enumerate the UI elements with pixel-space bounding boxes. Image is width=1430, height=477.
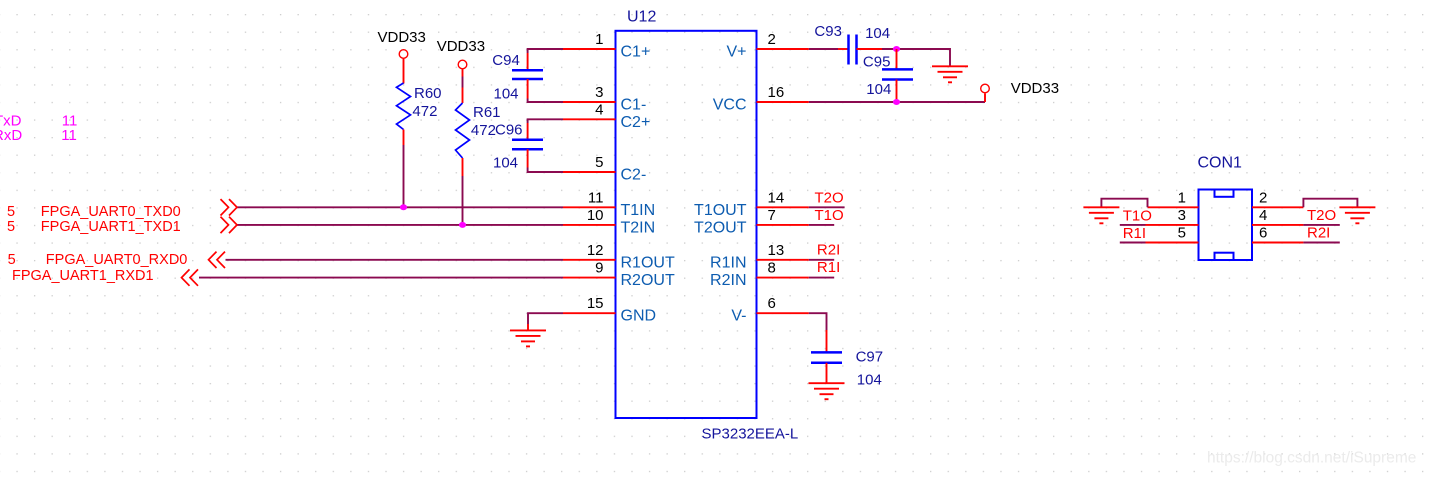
svg-text:1: 1: [595, 31, 603, 48]
svg-text:6: 6: [1259, 225, 1267, 242]
port label FPGA_UART0_RXD0: [8, 252, 188, 268]
svg-text:13: 13: [768, 242, 785, 259]
svg-text:R1I: R1I: [1123, 225, 1146, 242]
svg-text:C2+: C2+: [621, 114, 651, 131]
svg-text:T2IN: T2IN: [621, 219, 656, 236]
resistor R60 top pin: [403, 59, 405, 84]
svg-text:FPGA_UART1_TXD1: FPGA_UART1_TXD1: [41, 219, 181, 235]
pin 9 R2OUT: [563, 260, 675, 290]
net label R1I wire (CON1 pin 5): [1120, 242, 1146, 244]
wire CON1 pin 2 to ground (step): [1303, 199, 1357, 208]
svg-text:1: 1: [1178, 189, 1186, 206]
op-amp U12 body rectangle: [616, 31, 757, 418]
pin 13 R1IN: [710, 242, 809, 271]
ground symbol (C97): [809, 383, 845, 399]
wire R1OUT bus: [226, 259, 564, 261]
pin 14 T1OUT: [694, 189, 809, 219]
svg-text:14: 14: [768, 189, 785, 206]
svg-text:C94: C94: [492, 52, 520, 69]
svg-text:5: 5: [1178, 225, 1186, 242]
pin 4 C2+: [563, 101, 650, 131]
pin 10 T2IN: [563, 207, 655, 237]
resistor R60: [397, 83, 411, 130]
svg-text:T1IN: T1IN: [621, 202, 656, 219]
net label T2O wire (CON1 pin 4): [1303, 224, 1339, 226]
pin 3 C1-: [563, 84, 646, 114]
CON1 pin 4: [1252, 207, 1303, 225]
pin 5 C2-: [563, 154, 646, 184]
ground symbol (CON1 right): [1339, 207, 1375, 223]
ground symbol (CON1 left): [1083, 207, 1119, 223]
wire C93 to ground corner: [882, 49, 950, 66]
resistor R60 bottom pin: [403, 130, 405, 146]
wire C96 bottom to pin 5: [528, 168, 563, 173]
svg-text:FPGA_UART1_RXD1: FPGA_UART1_RXD1: [12, 268, 154, 284]
svg-text:T2O: T2O: [815, 190, 844, 207]
svg-text:VDD33: VDD33: [437, 38, 485, 55]
svg-text:2: 2: [768, 31, 776, 48]
svg-text:472: 472: [471, 122, 496, 139]
svg-text:V+: V+: [726, 44, 746, 61]
wire T2IN bus: [237, 224, 563, 226]
svg-text:T1O: T1O: [1123, 207, 1152, 224]
svg-text:2: 2: [1259, 189, 1267, 206]
svg-text:CON1: CON1: [1198, 155, 1243, 172]
power port VDD33 (VCC) stem: [984, 94, 986, 103]
svg-text:5: 5: [7, 219, 15, 235]
capacitor C96: [512, 140, 543, 149]
resistor R61 bottom pin: [462, 158, 464, 176]
wire R61 to T2IN: [462, 176, 464, 225]
power port VDD33 (R61): [437, 38, 485, 69]
wire CON1 pin 1 to ground (step): [1101, 199, 1147, 208]
capacitor C94: [512, 70, 543, 79]
svg-text:R2OUT: R2OUT: [621, 272, 675, 289]
svg-text:VDD33: VDD33: [1011, 80, 1059, 97]
capacitor C94 bottom pin: [527, 79, 529, 99]
svg-text:T1O: T1O: [815, 207, 844, 224]
svg-text:C97: C97: [856, 349, 884, 366]
capacitor C93: [849, 35, 857, 65]
pin 11 T1IN: [563, 189, 655, 219]
svg-text:U12: U12: [627, 8, 656, 25]
svg-text:R1OUT: R1OUT: [621, 254, 675, 271]
capacitor C96 bottom pin: [527, 149, 529, 167]
net label T1O (pin 7): [809, 207, 844, 225]
capacitor C97 bottom pin: [826, 363, 828, 383]
svg-text:104: 104: [857, 371, 882, 388]
resistor R61 top pin: [462, 88, 464, 104]
svg-text:R2IN: R2IN: [710, 272, 746, 289]
net label R2I wire (CON1 pin 6): [1303, 242, 1339, 244]
port arrow FPGA_UART1_TXD1: [221, 217, 238, 233]
svg-text:C93: C93: [814, 23, 842, 40]
pin 1 C1+: [563, 31, 650, 61]
svg-text:C95: C95: [863, 54, 891, 71]
net label T1O wire (CON1 pin 3): [1120, 224, 1146, 226]
pin 12 R1OUT: [563, 242, 675, 271]
svg-text:T2O: T2O: [1307, 207, 1336, 224]
svg-text:104: 104: [866, 81, 891, 98]
pin 16 VCC: [713, 84, 809, 114]
junction C93/C95: [893, 46, 900, 52]
CON1 pin 2: [1252, 189, 1303, 207]
svg-text:V-: V-: [731, 308, 746, 325]
svg-text:FPGA_UART0_RXD0: FPGA_UART0_RXD0: [46, 252, 188, 268]
port label FPGA_UART0_TXD0: [7, 204, 181, 220]
svg-text:R2I: R2I: [1307, 225, 1330, 242]
pin 6 V-: [731, 295, 808, 325]
svg-text:104: 104: [494, 86, 519, 103]
svg-text:104: 104: [493, 155, 518, 172]
port arrow FPGA_UART0_TXD0: [221, 199, 238, 215]
wire VDD33 to R61: [462, 77, 464, 88]
net label R1I (pin 8): [809, 259, 840, 278]
capacitor C95: [882, 69, 913, 79]
svg-text:C96: C96: [495, 122, 523, 139]
ground symbol (pin 15): [510, 324, 546, 346]
CON1 pin 1: [1148, 189, 1199, 207]
junction R60/T1IN: [400, 204, 407, 210]
resistor R61: [456, 103, 470, 158]
svg-text:6: 6: [768, 295, 776, 312]
wire pin 2 to C93: [809, 48, 838, 50]
CON1 top notch: [1215, 190, 1234, 197]
svg-text:T2OUT: T2OUT: [694, 219, 747, 236]
svg-text:3: 3: [595, 84, 603, 101]
wire R2OUT bus: [199, 277, 563, 279]
svg-text:R61: R61: [473, 104, 501, 121]
svg-text:4: 4: [1259, 207, 1267, 224]
svg-text:C1-: C1-: [621, 97, 647, 114]
CON1 pin 5: [1146, 225, 1199, 243]
svg-text:11: 11: [61, 127, 77, 144]
junction C95/VCC: [893, 99, 900, 105]
svg-text:RxD: RxD: [0, 127, 22, 144]
port arrow FPGA_UART1_RXD1: [182, 269, 199, 285]
svg-text:11: 11: [588, 189, 604, 206]
net label R2I (pin 13): [809, 242, 840, 260]
CON1 pin 3: [1146, 207, 1199, 225]
pin 2 V+: [726, 31, 808, 61]
pin 7 T2OUT: [694, 207, 809, 237]
power port VDD33 (R60): [378, 29, 426, 58]
wire C94 top to pin 1: [528, 49, 563, 53]
svg-text:R1I: R1I: [817, 259, 840, 276]
svg-text:T1OUT: T1OUT: [694, 202, 747, 219]
wire GND to pin 15: [528, 313, 563, 324]
port arrow FPGA_UART0_RXD0: [209, 252, 226, 268]
capacitor C97: [811, 352, 842, 362]
svg-text:8: 8: [768, 260, 776, 277]
svg-text:FPGA_UART0_TXD0: FPGA_UART0_TXD0: [41, 204, 181, 220]
svg-text:4: 4: [595, 101, 603, 118]
svg-text:SP3232EEA-L: SP3232EEA-L: [702, 426, 799, 443]
capacitor C96 top pin: [527, 123, 529, 140]
svg-text:VDD33: VDD33: [378, 29, 426, 46]
svg-text:GND: GND: [621, 308, 657, 325]
svg-text:15: 15: [587, 295, 604, 312]
svg-text:7: 7: [768, 207, 776, 224]
svg-text:C2-: C2-: [621, 167, 647, 184]
svg-text:9: 9: [595, 260, 603, 277]
power port VDD33 (VCC): [981, 80, 1059, 97]
svg-text:5: 5: [595, 154, 603, 171]
svg-text:3: 3: [1178, 207, 1186, 224]
svg-text:VCC: VCC: [713, 97, 747, 114]
port label FPGA_UART1_TXD1: [7, 219, 181, 235]
capacitor C93 right pin: [857, 48, 883, 50]
wire C94 bottom to pin 3: [528, 99, 563, 103]
ground symbol (V+ net): [932, 66, 968, 82]
svg-text:R60: R60: [414, 85, 442, 102]
wire C96 top to pin 4: [528, 119, 563, 123]
capacitor C94 top pin: [527, 53, 529, 70]
junction R61/T2IN: [459, 222, 466, 228]
capacitor C93 left pin: [838, 48, 849, 50]
wire R60 to T1IN: [403, 145, 405, 207]
CON1 pin 6: [1252, 225, 1303, 243]
net label T2O (pin 14): [809, 190, 845, 208]
pin 8 R2IN: [710, 260, 809, 290]
connector CON1 body: [1199, 190, 1253, 261]
svg-text:472: 472: [412, 103, 437, 120]
wire VCC to VDD33: [809, 101, 985, 103]
svg-text:16: 16: [768, 84, 785, 101]
svg-text:C1+: C1+: [621, 44, 651, 61]
svg-text:104: 104: [865, 25, 890, 42]
wire T1IN bus: [237, 206, 563, 208]
capacitor C95 bottom pin: [896, 80, 898, 103]
capacitor C95 top pin: [896, 49, 898, 69]
svg-text:R1IN: R1IN: [710, 254, 746, 271]
svg-text:https://blog.csdn.net/iSupreme: https://blog.csdn.net/iSupreme: [1207, 450, 1416, 467]
pin 15 GND: [563, 295, 656, 325]
svg-text:5: 5: [8, 252, 16, 268]
power port VDD33 (R61) stem: [462, 69, 464, 77]
CON1 bottom notch: [1215, 253, 1234, 260]
svg-text:5: 5: [7, 204, 15, 220]
capacitor C97 top pin: [826, 330, 828, 352]
svg-text:12: 12: [587, 242, 604, 259]
wire pin 6 V- to C97: [809, 313, 827, 330]
svg-text:R2I: R2I: [817, 242, 840, 259]
svg-text:10: 10: [587, 207, 604, 224]
